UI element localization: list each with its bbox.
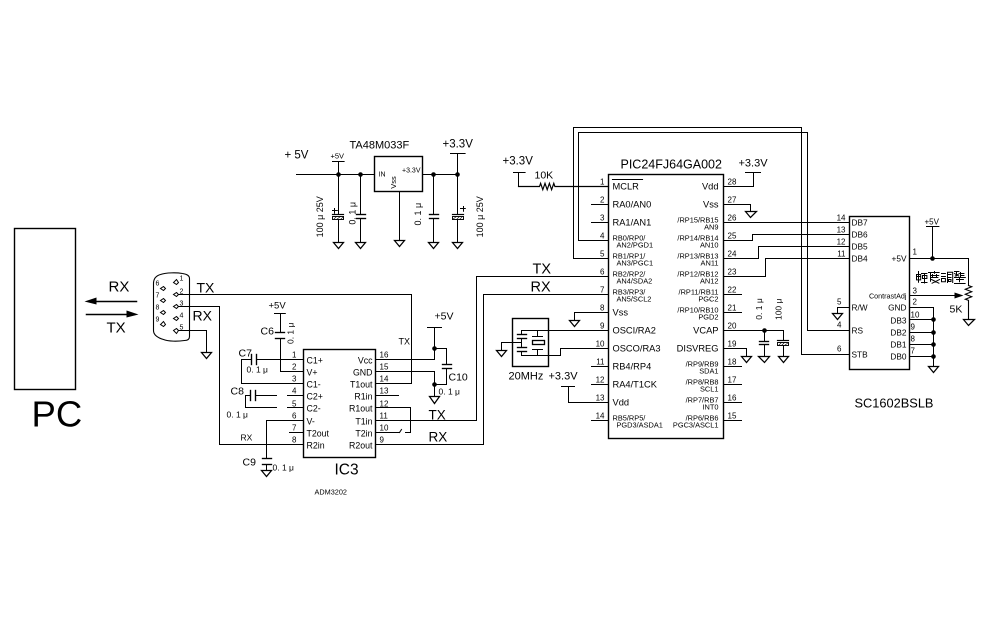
svg-text:100 μ 25V: 100 μ 25V: [315, 196, 325, 237]
svg-text:100 μ: 100 μ: [773, 298, 783, 320]
label 100u 25V (input): [315, 196, 325, 237]
ground at DISVREG: [742, 357, 752, 363]
PIC pin 23 label: [677, 270, 718, 286]
wire IC3 R1in pin13 stub: [377, 395, 399, 397]
capacitor 0.1u at VCAP: [760, 331, 769, 357]
svg-text:R1in: R1in: [354, 392, 372, 402]
PIC pin 28 label: [702, 182, 719, 192]
svg-text:13: 13: [596, 394, 605, 403]
IC PIC24FJ64GA002 body: [609, 175, 724, 439]
wire +3.3V output rail: [423, 174, 458, 176]
LCD pin 12 DB5: [837, 238, 868, 252]
svg-text:21: 21: [728, 304, 737, 313]
PIC pin 5 number: [600, 250, 605, 259]
label 0.1u (C7): [247, 365, 269, 375]
wire IC3 V- pin6 to C9: [267, 421, 304, 459]
svg-text:C6: C6: [261, 326, 275, 338]
PIC pin 26 number: [728, 214, 737, 223]
wire PIC pin9 OSCI to resonator: [522, 330, 609, 332]
svg-text:RA4/T1CK: RA4/T1CK: [613, 380, 658, 390]
wire C6 to IC3 V+ pin2: [281, 371, 304, 373]
label 100u (VCAP): [773, 298, 783, 320]
label 0.1u (VCAP): [754, 298, 764, 320]
svg-text:0. 1 μ: 0. 1 μ: [247, 365, 269, 375]
resonator 20MHz with built-in capacitors: [513, 319, 549, 367]
svg-text:9: 9: [600, 322, 605, 331]
svg-text:RX: RX: [531, 280, 551, 296]
svg-text:SCL1: SCL1: [700, 385, 719, 394]
svg-text:7: 7: [911, 347, 916, 356]
svg-text:25: 25: [728, 232, 737, 241]
capacitor 0.1u output: [430, 175, 439, 243]
svg-text:7: 7: [600, 286, 605, 295]
PIC pin 2 number: [600, 196, 605, 205]
label RX at R2out: [429, 430, 448, 445]
svg-text:RX: RX: [193, 308, 213, 324]
LCD pin 5 R/W to ground: [837, 298, 868, 314]
svg-text:16: 16: [728, 394, 737, 403]
junction dots on input rail: [336, 172, 363, 177]
svg-text:10: 10: [380, 424, 389, 433]
svg-text:12: 12: [837, 238, 846, 247]
LCD pin 6 STB label: [837, 345, 868, 360]
IC3 pin 1 label: [292, 351, 323, 366]
svg-text:RS: RS: [852, 326, 864, 336]
svg-text:+3.3V: +3.3V: [739, 158, 769, 170]
svg-text:5: 5: [600, 250, 605, 259]
svg-text:AN4/SDA2: AN4/SDA2: [617, 277, 653, 286]
svg-text:C9: C9: [243, 457, 257, 469]
PIC pin 21 number: [728, 304, 737, 313]
svg-text:3: 3: [600, 214, 605, 223]
svg-text:C2+: C2+: [307, 392, 323, 402]
PIC pin 11 stub: [592, 366, 609, 368]
PIC pin 13 number: [596, 394, 605, 403]
svg-text:Vss: Vss: [613, 308, 629, 318]
IC3 pin 6 label: [292, 412, 315, 427]
svg-text:RB4/RP4: RB4/RP4: [613, 362, 652, 372]
svg-text:R2out: R2out: [349, 441, 373, 451]
DB9 pin 4: [174, 313, 184, 321]
svg-text:V+: V+: [307, 368, 318, 378]
ground at regulator Vss: [395, 241, 405, 247]
svg-text:5: 5: [837, 298, 842, 307]
svg-text:+5V: +5V: [269, 301, 287, 312]
capacitor C8: [246, 391, 304, 401]
PIC pin 19 number: [728, 340, 737, 349]
ground at LCD R/W: [833, 314, 843, 320]
svg-text:13: 13: [837, 226, 846, 235]
svg-text:AN9: AN9: [704, 223, 718, 232]
PIC pin 2 label: [613, 200, 652, 210]
label PC: [32, 394, 83, 435]
ground at resonator: [497, 351, 507, 357]
wire IC3 GND pin15 to ground: [377, 372, 435, 397]
svg-text:6: 6: [156, 281, 160, 288]
svg-text:RX: RX: [241, 433, 253, 443]
svg-text:VCAP: VCAP: [693, 326, 718, 336]
svg-text:8: 8: [292, 436, 297, 445]
svg-text:IC3: IC3: [335, 462, 359, 479]
wire DB9 pin2 TX to IC3 T1out: [179, 295, 412, 384]
PIC pin 12 label: [613, 380, 658, 390]
svg-text:22: 22: [728, 286, 737, 295]
PIC pin 28 number: [728, 178, 737, 187]
PIC pin 19 label: [677, 344, 719, 354]
PIC pin 16 stub: [724, 402, 742, 404]
PIC pin 4 number: [600, 232, 605, 241]
PIC pin 17 stub: [724, 384, 742, 386]
svg-text:9: 9: [380, 436, 385, 445]
IC3 pin 14 label: [350, 375, 389, 390]
wire IC3 R1out pin12 to T2in: [377, 408, 411, 433]
label TX at DB9 pin 2: [197, 280, 216, 296]
label RX at DB9 pin 3: [193, 308, 213, 324]
+3.3V rail at PIC pin28 Vdd: [724, 158, 769, 187]
svg-text:GND: GND: [353, 368, 373, 378]
svg-text:18: 18: [728, 358, 737, 367]
svg-text:4: 4: [292, 387, 297, 396]
DB9 pin 5: [174, 325, 184, 334]
wire DB9 pin3 RX to IC3 R2in: [179, 307, 304, 445]
svg-text:Vss: Vss: [703, 200, 719, 210]
junction dot C10 top: [432, 346, 437, 351]
svg-text:DB2: DB2: [890, 328, 907, 338]
DB9 pin 3: [174, 301, 184, 309]
svg-text:24: 24: [728, 250, 737, 259]
label + 5V input: [285, 150, 309, 162]
svg-text:C1-: C1-: [307, 380, 321, 390]
PIC pin 7 number: [600, 286, 605, 295]
svg-text:OSCO/RA3: OSCO/RA3: [613, 344, 661, 354]
IC3 pin 15 label: [353, 363, 389, 378]
svg-text:SC1602BSLB: SC1602BSLB: [855, 396, 934, 411]
connector DB9 serial: [154, 273, 190, 341]
svg-text:+5V: +5V: [435, 311, 454, 323]
PIC pin 12 number: [596, 376, 605, 385]
svg-text:TX: TX: [429, 408, 446, 423]
svg-text:AN2/PGD1: AN2/PGD1: [617, 241, 654, 250]
svg-text:ADM3202: ADM3202: [315, 488, 347, 497]
svg-text:INT0: INT0: [702, 403, 718, 412]
wire PIC pin8 Vss to ground: [575, 313, 609, 321]
wire IC3 Vcc pin16 to +5V: [377, 359, 435, 361]
label SC1602BSLB: [855, 396, 934, 411]
PIC pin 7 label: [613, 288, 652, 304]
svg-text:4: 4: [600, 232, 605, 241]
label C7: [239, 348, 253, 360]
svg-text:7: 7: [292, 424, 297, 433]
PIC pin 1 number: [600, 178, 605, 187]
PIC pin 8 number: [600, 304, 605, 313]
wire DB9 pin5 to ground: [179, 331, 207, 353]
wire +5V input rail: [297, 174, 375, 176]
svg-text:C2-: C2-: [307, 404, 321, 414]
svg-text:T2in: T2in: [355, 429, 372, 439]
svg-text:DB0: DB0: [890, 352, 907, 362]
wire RX IC3 R2out to PIC RB3: [377, 295, 609, 445]
PIC pin 23 number: [728, 268, 737, 277]
svg-text:28: 28: [728, 178, 737, 187]
IC3 pin 11 label: [355, 412, 388, 427]
svg-text:+3.3V: +3.3V: [549, 371, 579, 383]
svg-text:V-: V-: [307, 417, 315, 427]
svg-text:DB5: DB5: [852, 242, 869, 252]
PIC pin 24 number: [728, 250, 737, 259]
label PIC24FJ64GA002: [621, 158, 722, 172]
svg-text:+3.3V: +3.3V: [503, 156, 534, 168]
+5V symbol above C10: [428, 311, 454, 360]
ground at PIC pin27: [746, 212, 757, 218]
PIC pin 15 label: [673, 414, 719, 430]
PIC pin 8 label: [613, 308, 629, 318]
svg-text:2: 2: [913, 298, 918, 307]
svg-text:0. 1 μ: 0. 1 μ: [285, 322, 295, 344]
svg-text:RA1/AN1: RA1/AN1: [613, 218, 652, 228]
label TX small above Vcc: [399, 337, 411, 347]
junction dot C10 bottom: [432, 382, 437, 387]
label C10: [449, 372, 468, 384]
svg-text:RX: RX: [429, 430, 448, 445]
label 0.1u (C9): [273, 463, 295, 473]
wire resonator common to ground: [502, 343, 522, 351]
label 0.1u (input): [347, 202, 357, 225]
wire TX IC3 T1in to PIC RB2: [377, 277, 609, 421]
PIC pin 6 label: [613, 270, 653, 286]
PIC pin 20 label: [693, 326, 718, 336]
label 20MHz: [509, 371, 544, 383]
ground below IC3 GND: [430, 397, 440, 404]
svg-text:PGC2: PGC2: [698, 295, 718, 304]
ground at PIC pin8: [570, 321, 580, 327]
svg-text:+5V: +5V: [892, 254, 907, 264]
svg-text:PGC3/ASCL1: PGC3/ASCL1: [673, 421, 719, 430]
wire PIC pin27 Vss to ground: [724, 205, 751, 212]
svg-text:2: 2: [600, 196, 605, 205]
svg-text:15: 15: [380, 363, 389, 372]
svg-text:14: 14: [596, 412, 605, 421]
+5V tap above C6: [269, 301, 287, 333]
ground below input electrolytic: [334, 243, 344, 249]
svg-text:PC: PC: [32, 394, 83, 435]
label RX near PIC: [531, 280, 551, 296]
IC3 pin 10 label: [355, 424, 389, 439]
label C9: [243, 457, 257, 469]
svg-text:R2in: R2in: [307, 441, 325, 451]
PIC pin 27 label: [703, 200, 719, 210]
svg-text:GND: GND: [888, 303, 906, 313]
svg-text:0. 1 μ: 0. 1 μ: [347, 202, 357, 225]
label TA48M033F: [350, 140, 410, 152]
label 100u 25V (output): [475, 196, 485, 237]
PIC pin 12 stub: [592, 384, 609, 386]
DB9 pin 2: [174, 289, 184, 297]
svg-text:DB7: DB7: [852, 218, 869, 228]
svg-text:10: 10: [596, 340, 605, 349]
svg-text:C1+: C1+: [307, 356, 323, 366]
LCD pin 3 ContrastAdj wiper wire: [869, 287, 964, 301]
PIC pin 16 number: [728, 394, 737, 403]
IC3 ADM3202 transceiver body: [304, 350, 376, 458]
PIC pin 15 stub: [724, 420, 742, 422]
svg-text:+3.3V: +3.3V: [443, 139, 474, 151]
svg-text:11: 11: [837, 250, 846, 259]
wire PIC pin20 VCAP to capacitors: [724, 328, 784, 333]
arrow TX to DB9: [87, 311, 139, 318]
svg-text:1: 1: [292, 351, 297, 360]
svg-text:4: 4: [180, 313, 184, 320]
IC3 pin 9 label: [349, 436, 384, 451]
svg-text:3: 3: [913, 287, 918, 296]
PC box: [15, 229, 76, 390]
ground below potentiometer: [964, 320, 975, 326]
PIC pin 21 stub: [724, 312, 742, 314]
PIC pin 20 number: [728, 322, 737, 331]
svg-text:20MHz: 20MHz: [509, 371, 544, 383]
PIC pin 25 label: [677, 234, 718, 250]
IC3 pin 12 label: [349, 400, 389, 414]
capacitor 0.1u input: [357, 175, 366, 243]
PIC pin 4 label: [613, 234, 654, 250]
PIC pin 16 label: [686, 396, 719, 412]
svg-text:8: 8: [600, 304, 605, 313]
svg-text:RA0/AN0: RA0/AN0: [613, 200, 652, 210]
label RX at IC3 R2in: [241, 433, 253, 443]
label 0.1u (C8): [227, 410, 249, 420]
label brightness adjust (kanji): [917, 272, 966, 284]
wire C8 to IC3 C2- pin5: [246, 396, 304, 408]
wire PIC pin4 RB0/PGD1 to LCD RS: [579, 133, 850, 331]
svg-text:0. 1 μ: 0. 1 μ: [273, 463, 295, 473]
label RX (PC side): [109, 279, 130, 296]
svg-text:13: 13: [380, 387, 389, 396]
svg-text:DB6: DB6: [852, 230, 869, 240]
svg-text:T2out: T2out: [307, 429, 330, 439]
svg-text:11: 11: [596, 358, 605, 367]
PIC pin 11 number: [596, 358, 605, 367]
junction dots on output rail: [431, 172, 460, 177]
svg-text:DISVREG: DISVREG: [677, 344, 719, 354]
PIC pin 1 label MCLR with overline: [613, 180, 643, 192]
label 10K: [535, 170, 554, 182]
ground below output 0.1u: [429, 243, 439, 249]
svg-text:10: 10: [911, 311, 920, 320]
svg-text:TX: TX: [399, 337, 411, 347]
svg-text:PGD3/ASDA1: PGD3/ASDA1: [617, 421, 663, 430]
svg-text:8: 8: [911, 335, 916, 344]
PIC pin 26 label: [677, 216, 718, 232]
DB9 pin 7: [156, 293, 166, 303]
LCD pin 11 DB4: [837, 250, 868, 264]
potentiometer 5K: [965, 286, 971, 320]
wire PIC pin5 RB1/PGC1 to LCD STB: [574, 128, 850, 355]
DB9 pin 8: [156, 305, 166, 315]
IC3 pin 4 label: [292, 387, 323, 402]
PIC pin 24 label: [677, 252, 718, 268]
svg-text:PIC24FJ64GA002: PIC24FJ64GA002: [621, 158, 722, 172]
svg-text:20: 20: [728, 322, 737, 331]
svg-text:C8: C8: [231, 386, 245, 398]
PIC pin 10 label: [613, 344, 661, 354]
svg-text:Vdd: Vdd: [702, 182, 719, 192]
IC3 pin 8 label: [292, 436, 325, 451]
svg-text:DB1: DB1: [890, 340, 907, 350]
svg-text:16: 16: [380, 351, 389, 360]
PIC pin 27 number: [728, 196, 737, 205]
svg-text:6: 6: [292, 412, 297, 421]
DB9 pin 6: [156, 281, 166, 291]
svg-text:1: 1: [913, 248, 918, 257]
svg-text:ContrastAdj: ContrastAdj: [869, 292, 907, 301]
LCD pin 8 DB1: [890, 335, 935, 350]
svg-text:6: 6: [837, 345, 842, 354]
resistor 10K: [519, 183, 609, 189]
svg-text:12: 12: [596, 376, 605, 385]
svg-text:DB3: DB3: [890, 316, 907, 326]
ground below input 0.1u: [356, 243, 366, 249]
PIC pin 18 label: [686, 360, 719, 376]
svg-text:+ 5V: + 5V: [285, 150, 309, 162]
IC3 pin 16 label: [358, 351, 389, 366]
label IC3: [335, 462, 359, 479]
IC3 pin 13 label: [354, 387, 389, 402]
svg-text:+3.3V: +3.3V: [402, 168, 421, 175]
svg-text:R/W: R/W: [852, 303, 868, 313]
svg-text:AN3/PGC1: AN3/PGC1: [617, 259, 654, 268]
PIC pin 9 label: [613, 326, 656, 336]
svg-text:PGD2: PGD2: [698, 313, 718, 322]
label 0.1u (C10): [439, 387, 461, 397]
label C8: [231, 386, 245, 398]
+3.3V rail symbol at regulator output: [443, 139, 474, 175]
PIC pin 22 label: [679, 288, 719, 304]
svg-text:9: 9: [156, 317, 160, 324]
IC3 pin 5 label: [292, 400, 321, 414]
label TX at T1in: [429, 408, 446, 423]
svg-text:3: 3: [292, 375, 297, 384]
svg-text:Vdd: Vdd: [613, 398, 630, 408]
IC3 pin 7 label: [292, 424, 330, 439]
PIC pin 9 number: [600, 322, 605, 331]
svg-text:11: 11: [380, 412, 389, 421]
PIC pin 2 stub: [592, 204, 609, 206]
svg-text:MCLR: MCLR: [613, 182, 640, 192]
PIC pin 14 label: [613, 414, 663, 430]
svg-text:C10: C10: [449, 372, 468, 384]
PIC pin 14 number: [596, 412, 605, 421]
wire PIC pin23 to LCD DB4: [724, 259, 850, 277]
svg-text:STB: STB: [852, 350, 869, 360]
label 0.1u (output): [413, 203, 423, 226]
ground below LCD GND chain: [929, 367, 939, 373]
PIC pin 5 label: [613, 252, 654, 268]
PIC pin 6 number: [600, 268, 605, 277]
svg-text:SDA1: SDA1: [699, 367, 718, 376]
wire PIC pin10 OSCO to resonator: [522, 349, 609, 356]
DB9 pin 1: [174, 276, 184, 285]
svg-text:4: 4: [837, 321, 842, 330]
svg-text:T1in: T1in: [355, 417, 372, 427]
label TX near PIC: [533, 262, 552, 278]
PIC pin 14 stub: [592, 420, 609, 422]
capacitor C6: [276, 333, 285, 372]
svg-text:DB4: DB4: [852, 254, 869, 264]
svg-text:C7: C7: [239, 348, 253, 360]
LCD pin 14 DB7: [837, 214, 868, 228]
LCD pin 4 RS label: [837, 321, 863, 336]
svg-text:TX: TX: [533, 262, 552, 278]
svg-text:IN: IN: [379, 172, 386, 179]
